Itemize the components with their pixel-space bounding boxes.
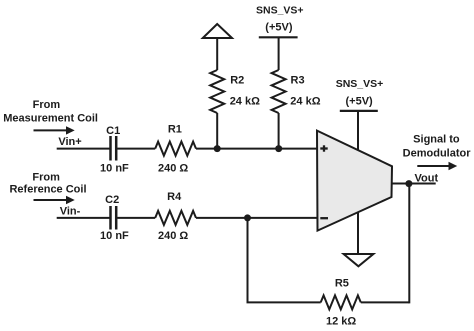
op-amp - input symbol [320,217,328,219]
wire R4 to op-amp - input [196,217,322,219]
node junction R2/+wire [214,145,221,152]
node junction R3/+wire [275,145,282,152]
svg-text:R3: R3 [291,75,305,87]
wire Vin+ line [57,148,110,150]
resistor R5 [321,295,361,309]
svg-text:24 kΩ: 24 kΩ [290,95,320,107]
svg-text:24 kΩ: 24 kΩ [230,95,260,107]
resistor R4 [155,211,196,225]
capacitor C2 [111,206,117,230]
svg-text:10 nF: 10 nF [100,230,129,242]
node junction feedback/-wire [244,214,251,221]
svg-text:10 nF: 10 nF [100,163,129,175]
wire op-amp bottom to ground [357,205,359,254]
arrow signal to demodulator [417,162,457,170]
svg-text:240 Ω: 240 Ω [158,163,188,175]
svg-text:Measurement Coil: Measurement Coil [3,112,98,124]
op-amp + input symbol [320,145,327,151]
wire Vin- line [57,217,110,219]
ground symbol [344,254,374,266]
resistor R3 [272,70,286,113]
wire feedback up to Vout [408,184,410,304]
power arrow symbol above R2 [203,24,232,38]
wire bar to op-amp top [357,111,359,155]
wire arrow to R2 [216,38,218,70]
svg-text:Vout: Vout [414,173,438,185]
svg-text:12 kΩ: 12 kΩ [326,316,356,328]
wire bar to R3 [278,37,280,70]
svg-text:Vin+: Vin+ [58,136,81,148]
wire R1 to op-amp + input [196,148,322,150]
op-amp U1 [317,131,392,231]
svg-text:From: From [32,171,60,183]
svg-text:(+5V): (+5V) [345,95,373,107]
svg-text:Reference Coil: Reference Coil [9,184,86,196]
svg-text:R1: R1 [168,123,182,135]
svg-text:R4: R4 [167,191,182,203]
wire R2 to junction [216,113,218,149]
resistor R2 [210,70,224,113]
svg-text:Vin-: Vin- [60,206,81,218]
svg-text:240 Ω: 240 Ω [158,230,188,242]
wire R3 to junction [278,113,280,149]
svg-text:C1: C1 [106,125,120,137]
svg-text:Demodulator: Demodulator [403,148,472,160]
resistor R1 [155,142,196,156]
arrow from measurement coil [34,126,75,134]
arrow from reference coil [34,196,75,204]
wire feedback bottom left [247,301,321,303]
wire op-amp output [385,183,436,185]
svg-text:R2: R2 [230,74,244,86]
node Vout junction [405,180,412,187]
svg-text:C2: C2 [105,194,119,206]
svg-text:SNS_VS+: SNS_VS+ [256,4,304,16]
svg-text:From: From [33,99,61,111]
power bar SNS_VS+ above R3 [259,36,298,38]
svg-text:Signal to: Signal to [413,134,460,146]
capacitor C1 [111,136,117,161]
wire feedback: inverting node down [247,218,249,303]
svg-text:(+5V): (+5V) [265,21,293,33]
svg-text:SNS_VS+: SNS_VS+ [336,78,384,90]
svg-text:R5: R5 [335,277,349,289]
power bar SNS_VS+ above op-amp [340,110,378,112]
wire feedback bottom right [361,301,410,303]
wire C2 to R4 [117,217,155,219]
wire C1 to R1 [117,148,155,150]
